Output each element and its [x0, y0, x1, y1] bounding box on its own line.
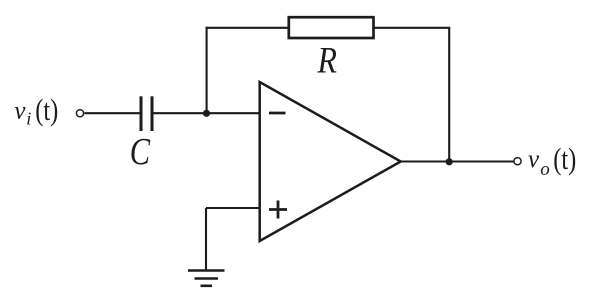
svg-text:v: v [14, 97, 26, 124]
svg-text:i: i [26, 109, 31, 129]
svg-text:v: v [528, 146, 540, 173]
svg-text:o: o [540, 159, 550, 180]
svg-text:(t): (t) [553, 142, 576, 176]
svg-text:C: C [130, 131, 151, 173]
svg-text:R: R [317, 40, 337, 81]
svg-text:(t): (t) [35, 93, 58, 127]
